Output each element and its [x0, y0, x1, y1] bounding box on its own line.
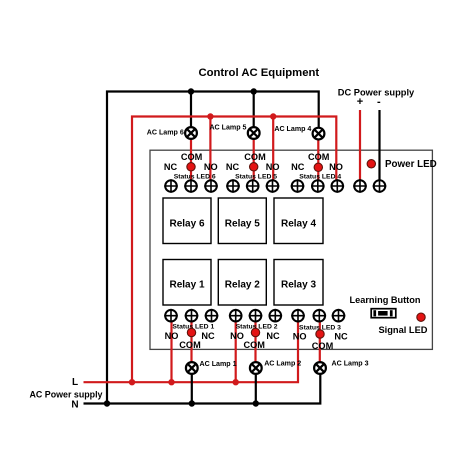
wire: red L loop (left vertical, top horizontal, drop to relay4 NO): [132, 117, 336, 383]
wire: red relay1 NO down to L: [170, 316, 172, 383]
relay 1 box: [163, 260, 211, 306]
svg-text:AC Power supply: AC Power supply: [30, 389, 103, 399]
COM dot 6: [187, 163, 195, 171]
junction dot red top line at relay6 NO: [207, 113, 213, 119]
svg-text:Status LED 6: Status LED 6: [174, 173, 216, 180]
wire: red COM2 down to AC Lamp 2: [254, 316, 256, 362]
svg-text:AC Lamp 1: AC Lamp 1: [200, 360, 237, 368]
lamp AC Lamp 6: [185, 127, 197, 139]
wire: black N loop (left vertical, top horizontal, drop to lamp 4): [107, 92, 319, 404]
lamp AC Lamp 5: [248, 127, 260, 139]
svg-text:AC Lamp 5: AC Lamp 5: [209, 124, 246, 132]
terminal screws top group 4: [291, 179, 344, 193]
relay 3 box: [274, 260, 323, 306]
svg-text:Relay 1: Relay 1: [169, 279, 204, 290]
relay 4 box: [274, 198, 323, 244]
svg-text:NC: NC: [226, 162, 240, 172]
svg-text:COM: COM: [312, 341, 334, 351]
junction dot on black top line at lamp 6: [188, 88, 194, 94]
learning button icon: [371, 309, 396, 318]
wire: red COM3 down to AC Lamp 3: [319, 316, 321, 362]
lamp AC Lamp 2: [250, 362, 262, 374]
svg-text:COM: COM: [244, 152, 266, 162]
COM dot 4: [314, 163, 322, 171]
svg-text:N: N: [71, 399, 78, 410]
svg-text:L: L: [72, 377, 78, 388]
terminal screws bottom group 1: [164, 309, 218, 323]
wire: black drop to AC Lamp 5: [253, 92, 255, 128]
wire: DC minus black: [378, 110, 380, 186]
svg-text:COM: COM: [179, 340, 201, 350]
junction dot on black top line at lamp 5: [251, 88, 257, 94]
junction dot red L line at loop: [129, 379, 135, 385]
svg-text:Relay 2: Relay 2: [225, 279, 260, 290]
relay 6 box: [163, 198, 211, 244]
svg-text:NC: NC: [291, 162, 305, 172]
svg-text:COM: COM: [243, 340, 265, 350]
junction dot red L line at relay1 NO: [168, 379, 174, 385]
wire: red L bottom line with riser to relay3 NO: [84, 316, 299, 383]
wire: red AC Lamp 6 to COM 6: [190, 139, 192, 186]
wire: black lamp2 down to N: [255, 374, 257, 403]
svg-text:NO: NO: [165, 331, 179, 341]
junction dot black N line at loop: [104, 400, 110, 406]
svg-text:NC: NC: [201, 331, 215, 341]
wire: black N bottom line with riser to lamp3: [84, 374, 321, 403]
wire: red relay2 NO down to L: [235, 316, 237, 383]
svg-text:Relay 6: Relay 6: [169, 218, 204, 229]
wire: red drop to relay 5 NO terminal: [272, 117, 274, 187]
svg-text:NO: NO: [293, 332, 307, 342]
svg-text:Control AC Equipment: Control AC Equipment: [198, 67, 319, 79]
svg-text:Relay 4: Relay 4: [281, 218, 316, 229]
wire: red AC Lamp 4 to COM 4: [317, 140, 319, 186]
wire: red COM1 down to AC Lamp 1: [190, 316, 192, 362]
terminal screws DC: [353, 179, 386, 193]
power LED dot: [367, 160, 375, 168]
svg-text:AC Lamp 3: AC Lamp 3: [332, 359, 369, 367]
svg-text:+: +: [357, 96, 363, 108]
junction dot black N line at lamp2: [253, 400, 259, 406]
svg-text:Status LED 5: Status LED 5: [235, 173, 277, 180]
wire: DC plus red: [359, 110, 361, 186]
wire: black drop to AC Lamp 6: [190, 92, 192, 128]
svg-text:Signal LED: Signal LED: [378, 325, 427, 335]
svg-text:Relay 5: Relay 5: [225, 218, 260, 229]
COM dot 1: [187, 328, 195, 336]
svg-text:-: -: [377, 96, 381, 108]
svg-text:AC Lamp 6: AC Lamp 6: [147, 129, 184, 137]
junction dot red L line at relay2 NO: [233, 379, 239, 385]
lamp AC Lamp 4: [313, 128, 325, 140]
svg-text:AC Lamp 4: AC Lamp 4: [274, 125, 311, 133]
svg-text:NO: NO: [230, 331, 244, 341]
terminal screws top group 6: [164, 179, 218, 193]
terminal screws top group 5: [226, 179, 279, 193]
svg-text:Learning Button: Learning Button: [350, 295, 421, 305]
svg-text:NO: NO: [266, 162, 280, 172]
svg-text:AC Lamp 2: AC Lamp 2: [264, 359, 301, 367]
wire: black lamp1 down to N: [191, 374, 193, 403]
terminal screws bottom group 3: [291, 309, 345, 323]
relay 5 box: [218, 198, 266, 244]
svg-text:Power LED: Power LED: [385, 159, 437, 170]
signal LED dot: [417, 313, 425, 321]
svg-text:NC: NC: [164, 162, 178, 172]
svg-text:Status LED 4: Status LED 4: [299, 173, 341, 180]
module board outline: [150, 150, 432, 349]
relay 2 box: [218, 260, 266, 306]
terminal screws bottom group 2: [229, 309, 282, 323]
COM dot 2: [251, 328, 259, 336]
svg-text:COM: COM: [308, 152, 330, 162]
svg-text:Relay 3: Relay 3: [281, 279, 316, 290]
svg-text:COM: COM: [181, 152, 203, 162]
junction dot red top line at relay5 NO: [270, 113, 276, 119]
svg-text:NC: NC: [334, 332, 348, 342]
COM dot 3: [316, 330, 324, 338]
svg-text:NO: NO: [204, 162, 218, 172]
COM dot 5: [250, 163, 258, 171]
wire: red AC Lamp 5 to COM 5: [253, 139, 255, 186]
junction dot black N line at lamp1: [189, 400, 195, 406]
lamp AC Lamp 1: [186, 362, 198, 374]
lamp AC Lamp 3: [314, 362, 326, 374]
svg-text:NC: NC: [266, 331, 280, 341]
svg-text:NO: NO: [329, 162, 343, 172]
wire: red drop to relay 6 NO terminal: [209, 117, 211, 187]
